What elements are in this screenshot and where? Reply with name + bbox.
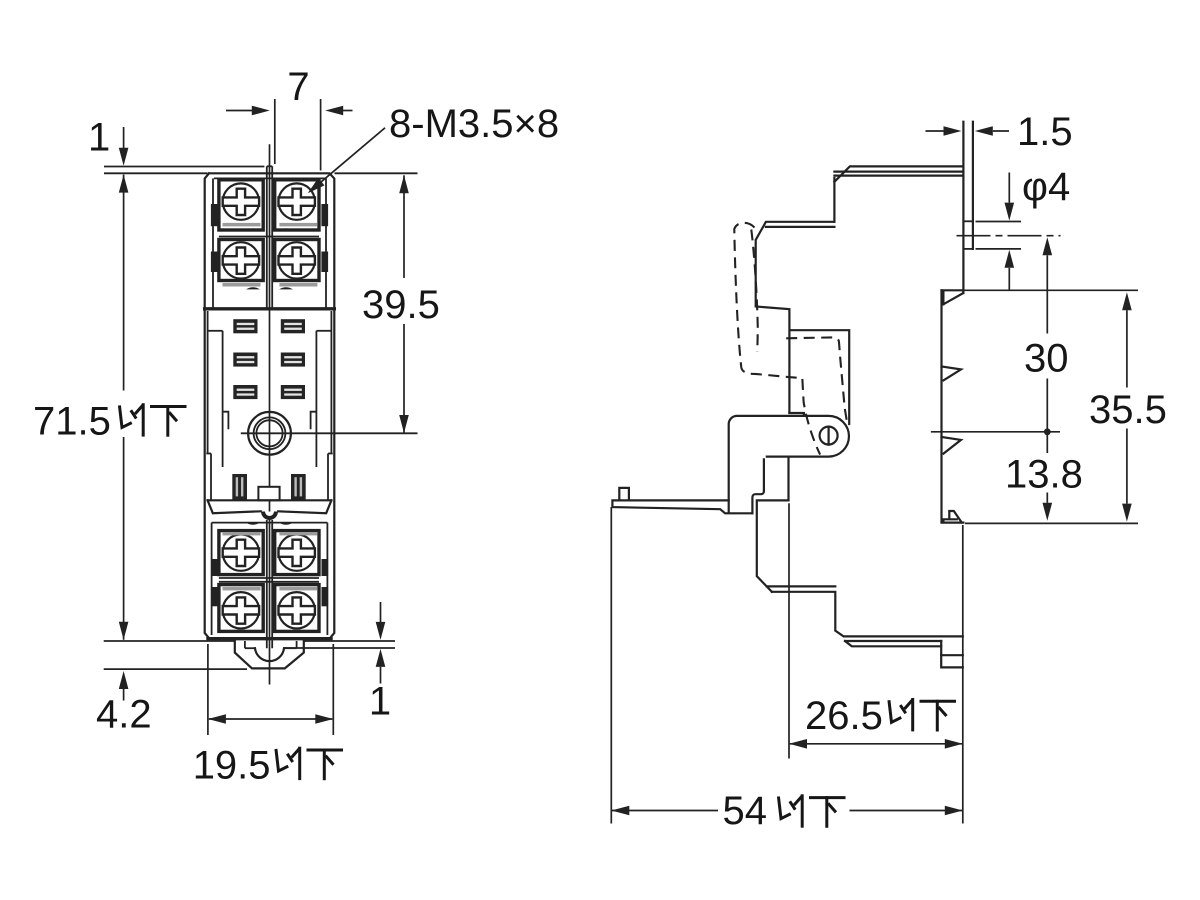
svg-text:39.5: 39.5 [362, 283, 440, 327]
svg-text:19.5: 19.5 [193, 744, 271, 788]
svg-text:1: 1 [88, 116, 110, 160]
svg-text:30: 30 [1024, 337, 1069, 381]
svg-text:7: 7 [287, 65, 309, 109]
svg-text:4.2: 4.2 [96, 693, 152, 737]
svg-text:13.8: 13.8 [1005, 453, 1083, 497]
svg-text:1.5: 1.5 [1017, 110, 1073, 154]
svg-text:26.5: 26.5 [805, 694, 883, 738]
svg-text:71.5: 71.5 [33, 400, 111, 444]
svg-text:35.5: 35.5 [1089, 388, 1167, 432]
svg-text:8-M3.5×8: 8-M3.5×8 [389, 102, 559, 146]
svg-text:1: 1 [369, 680, 391, 724]
svg-text:φ4: φ4 [1022, 165, 1070, 209]
svg-text:54: 54 [723, 789, 768, 833]
